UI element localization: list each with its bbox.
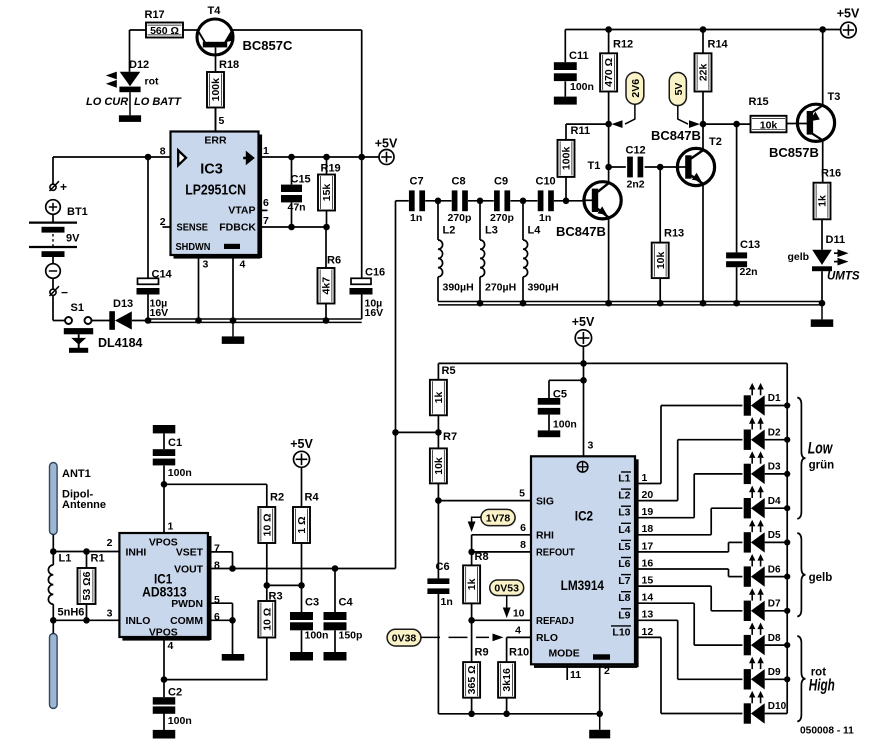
svg-text:C12: C12 [626,145,646,157]
svg-text:7: 7 [263,215,269,227]
svg-text:15: 15 [642,575,654,587]
svg-text:5: 5 [519,488,525,500]
svg-text:16V: 16V [365,307,384,319]
svg-text:8: 8 [214,560,220,572]
svg-text:18: 18 [642,523,654,535]
svg-text:C14: C14 [152,269,173,281]
svg-text:Low: Low [808,440,833,458]
svg-text:LM3914: LM3914 [561,578,604,594]
svg-text:INHI: INHI [126,548,147,559]
svg-text:RHI: RHI [536,531,554,542]
svg-text:LO BATT: LO BATT [134,96,182,108]
svg-text:C15: C15 [291,174,311,186]
svg-text:R8: R8 [475,551,489,563]
svg-text:C10: C10 [536,176,556,188]
svg-text:BC857B: BC857B [769,145,819,160]
svg-text:MODE: MODE [549,648,580,659]
svg-text:5: 5 [214,594,220,606]
svg-text:T3: T3 [828,91,841,103]
svg-text:1 Ω: 1 Ω [296,516,308,533]
svg-text:19: 19 [642,506,654,518]
svg-text:R9: R9 [475,647,489,659]
svg-text:2: 2 [160,216,166,228]
svg-text:100k: 100k [561,147,573,171]
svg-text:L2: L2 [618,490,630,502]
svg-text:100n: 100n [168,715,192,727]
svg-text:L4: L4 [528,225,542,237]
svg-text:+5V: +5V [572,315,595,329]
svg-text:10 Ω: 10 Ω [261,608,273,631]
svg-text:R5: R5 [442,365,456,377]
svg-text:R17: R17 [145,9,165,21]
svg-text:2: 2 [107,537,113,549]
svg-text:D1: D1 [768,393,781,404]
svg-text:560 Ω: 560 Ω [150,25,179,37]
svg-text:R1: R1 [91,553,105,565]
svg-text:SIG: SIG [536,496,554,507]
svg-text:REFOUT: REFOUT [536,548,575,559]
svg-text:T4: T4 [208,5,222,17]
svg-text:D8: D8 [768,633,781,644]
svg-text:UMTS: UMTS [827,271,860,283]
svg-text:10 Ω: 10 Ω [261,513,273,536]
svg-text:3k16: 3k16 [501,668,513,692]
svg-text:T2: T2 [709,136,722,148]
svg-text:BC857C: BC857C [243,38,293,53]
svg-text:3: 3 [107,608,113,620]
svg-text:R16: R16 [821,168,841,180]
svg-text:R2: R2 [270,492,284,504]
svg-text:C5: C5 [553,388,567,400]
svg-text:D9: D9 [768,667,781,678]
svg-text:9V: 9V [66,233,80,245]
svg-text:1n: 1n [539,212,551,224]
svg-text:53 Ω6: 53 Ω6 [81,571,93,600]
svg-text:IC3: IC3 [200,160,223,177]
svg-text:1V78: 1V78 [486,512,511,524]
svg-text:270µH: 270µH [485,282,516,294]
svg-text:0V53: 0V53 [494,583,519,595]
svg-text:RLO: RLO [536,633,558,644]
svg-text:SHDWN: SHDWN [176,241,211,253]
svg-text:+: + [60,180,67,194]
svg-text:L7: L7 [618,575,630,587]
svg-text:270p: 270p [448,212,472,224]
svg-text:1k: 1k [817,195,829,207]
svg-text:R3: R3 [269,591,283,603]
svg-text:4: 4 [240,259,246,271]
svg-text:L5: L5 [618,541,630,553]
svg-text:100n: 100n [305,629,329,641]
svg-text:1: 1 [642,472,648,484]
svg-text:+5V: +5V [290,437,313,451]
svg-text:10: 10 [513,607,525,619]
svg-text:C2: C2 [168,687,182,699]
svg-text:S1: S1 [71,302,84,314]
svg-text:470 Ω: 470 Ω [603,58,615,87]
svg-text:R7: R7 [443,431,457,443]
svg-text:D13: D13 [113,298,133,310]
svg-text:R19: R19 [321,163,341,175]
svg-text:C9: C9 [494,176,508,188]
svg-text:FDBCK: FDBCK [219,221,256,233]
svg-text:VPOS: VPOS [149,538,178,549]
svg-text:INLO: INLO [126,616,151,627]
svg-text:L2: L2 [443,225,456,237]
svg-text:L3: L3 [618,507,630,519]
svg-text:R18: R18 [219,59,239,71]
svg-text:20: 20 [642,489,654,501]
svg-text:C3: C3 [305,597,319,609]
svg-text:1n: 1n [410,212,422,224]
svg-text:BC847B: BC847B [651,128,701,143]
svg-text:VOUT: VOUT [174,564,204,575]
svg-text:R12: R12 [613,39,633,51]
svg-text:R14: R14 [708,39,729,51]
svg-text:4: 4 [515,624,521,636]
svg-text:1: 1 [168,521,174,533]
svg-text:47n: 47n [288,202,306,214]
svg-text:8: 8 [520,539,526,551]
svg-text:16V: 16V [150,307,169,319]
svg-text:D2: D2 [768,427,781,438]
svg-text:IC2: IC2 [575,508,593,523]
svg-text:R4: R4 [305,492,320,504]
svg-text:REFADJ: REFADJ [536,616,574,627]
svg-text:L10: L10 [612,626,630,638]
svg-text:3: 3 [588,440,594,452]
svg-text:15k: 15k [321,184,333,202]
svg-text:050008 - 11: 050008 - 11 [800,726,854,737]
svg-text:gelb: gelb [788,251,810,263]
svg-text:16: 16 [642,557,654,569]
svg-text:3: 3 [203,259,209,271]
svg-text:D12: D12 [129,59,149,71]
svg-text:C13: C13 [740,239,760,251]
svg-text:390µH: 390µH [528,282,559,294]
svg-text:L3: L3 [485,225,498,237]
svg-text:grün: grün [809,460,835,472]
svg-text:D6: D6 [768,564,781,575]
svg-text:C16: C16 [365,267,385,279]
svg-text:390µH: 390µH [443,282,474,294]
svg-text:D3: D3 [768,462,781,473]
svg-text:rot: rot [145,76,160,88]
svg-text:High: High [809,677,835,695]
svg-text:Antenne: Antenne [62,499,106,511]
svg-text:−: − [61,286,68,300]
svg-text:2: 2 [604,665,610,677]
svg-text:1k: 1k [466,578,478,590]
svg-text:VTAP: VTAP [228,205,255,217]
svg-text:12: 12 [642,626,654,638]
svg-text:0V38: 0V38 [392,632,417,644]
svg-text:8: 8 [160,146,166,158]
svg-text:C4: C4 [339,597,354,609]
svg-text:C1: C1 [168,437,182,449]
svg-text:LP2951CN: LP2951CN [185,182,246,199]
svg-text:100n: 100n [168,467,192,479]
svg-text:13: 13 [642,609,654,621]
svg-text:L9: L9 [618,609,630,621]
svg-text:4k7: 4k7 [321,277,333,295]
svg-text:1k: 1k [433,392,445,404]
svg-text:R6: R6 [327,255,341,267]
svg-text:10k: 10k [433,457,445,475]
svg-text:R13: R13 [664,228,684,240]
svg-text:C6: C6 [436,561,450,573]
svg-text:D4: D4 [768,496,781,507]
svg-text:D5: D5 [768,530,781,541]
svg-text:L8: L8 [618,592,630,604]
svg-text:14: 14 [642,592,654,604]
svg-text:1: 1 [263,145,269,157]
svg-text:ERR: ERR [204,135,227,147]
svg-text:L1: L1 [59,553,72,565]
svg-text:22k: 22k [698,63,710,81]
svg-text:D10: D10 [768,701,787,712]
svg-text:100n: 100n [570,81,594,93]
svg-text:+5V: +5V [375,137,398,151]
svg-text:BC847B: BC847B [556,224,606,239]
svg-text:270p: 270p [490,212,514,224]
svg-text:VSET: VSET [176,548,204,559]
svg-text:D11: D11 [826,234,846,246]
svg-text:5: 5 [219,115,225,127]
svg-text:150p: 150p [339,629,363,641]
svg-text:LO CUR: LO CUR [86,96,128,108]
svg-text:2V6: 2V6 [630,79,642,98]
svg-text:C11: C11 [569,50,589,62]
svg-text:SENSE: SENSE [177,221,209,233]
svg-text:gelb: gelb [809,572,833,584]
svg-text:100n: 100n [553,418,577,430]
svg-text:1n: 1n [441,596,453,608]
svg-text:4: 4 [168,640,174,652]
svg-text:100k: 100k [210,78,222,102]
svg-text:D7: D7 [768,599,781,610]
svg-text:10k: 10k [655,251,667,269]
svg-text:R10: R10 [509,647,529,659]
svg-text:VPOS: VPOS [149,627,178,638]
svg-text:DL4184: DL4184 [98,336,143,350]
svg-text:ANT1: ANT1 [62,468,91,480]
svg-text:11: 11 [570,669,581,681]
svg-text:2n2: 2n2 [627,179,645,191]
svg-text:6: 6 [263,197,269,209]
svg-text:PWDN: PWDN [171,599,203,610]
svg-text:L4: L4 [618,524,630,536]
svg-text:C7: C7 [410,176,424,188]
svg-text:L6: L6 [618,558,630,570]
svg-text:COMM: COMM [170,616,203,627]
svg-text:10k: 10k [760,119,778,131]
svg-text:6: 6 [520,522,526,534]
svg-text:C8: C8 [452,176,466,188]
svg-text:5V: 5V [673,83,685,96]
svg-text:R15: R15 [749,96,769,108]
svg-text:+5V: +5V [837,7,860,21]
svg-text:BT1: BT1 [67,206,88,218]
svg-text:T1: T1 [588,160,601,172]
svg-text:AD8313: AD8313 [142,585,187,600]
svg-text:L1: L1 [618,473,630,485]
svg-text:R11: R11 [571,125,591,137]
svg-text:17: 17 [642,540,654,552]
svg-text:22n: 22n [740,266,758,278]
svg-text:365 Ω: 365 Ω [466,665,478,694]
svg-text:5nH6: 5nH6 [58,607,85,619]
